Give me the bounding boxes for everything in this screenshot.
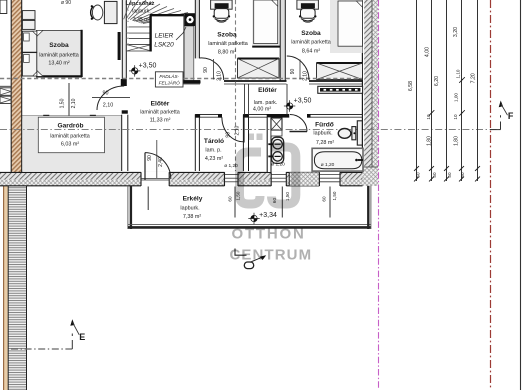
svg-text:2,40: 2,40 <box>158 157 164 167</box>
svg-text:2,10: 2,10 <box>303 71 309 81</box>
svg-text:8,80 m²: 8,80 m² <box>218 50 236 56</box>
svg-text:1,50: 1,50 <box>60 98 66 108</box>
svg-text:lam. park.: lam. park. <box>254 100 278 106</box>
svg-text:7,38 m²: 7,38 m² <box>183 214 201 220</box>
svg-text:13,40 m²: 13,40 m² <box>48 60 69 66</box>
svg-text:FELJÁRÓ: FELJÁRÓ <box>159 80 180 86</box>
svg-text:50: 50 <box>432 172 437 178</box>
svg-text:90: 90 <box>103 90 109 96</box>
svg-text:1,00: 1,00 <box>453 93 458 102</box>
svg-text:3,20: 3,20 <box>453 27 459 37</box>
svg-text:LSK20: LSK20 <box>154 42 174 49</box>
svg-text:Előtér: Előtér <box>258 87 277 94</box>
svg-text:Előtér: Előtér <box>151 100 170 107</box>
svg-text:Gardrób: Gardrób <box>57 122 83 129</box>
svg-text:7,20: 7,20 <box>470 73 476 83</box>
svg-text:ø 1,20: ø 1,20 <box>321 162 335 168</box>
svg-text:2,10: 2,10 <box>217 71 223 81</box>
svg-text:+3,34: +3,34 <box>259 212 277 219</box>
svg-text:4,23 m²: 4,23 m² <box>205 156 223 162</box>
svg-text:8,64 m²: 8,64 m² <box>302 48 320 54</box>
svg-text:90: 90 <box>203 67 209 73</box>
svg-text:2,10: 2,10 <box>234 126 240 136</box>
svg-text:Szoba: Szoba <box>49 42 69 49</box>
svg-text:lam. p.: lam. p. <box>205 148 221 154</box>
svg-text:E: E <box>79 332 85 342</box>
svg-text:OTTHON: OTTHON <box>232 226 306 243</box>
svg-text:laminált parketta: laminált parketta <box>140 110 180 116</box>
svg-text:laminált parketta: laminált parketta <box>50 134 90 140</box>
svg-text:2,10: 2,10 <box>71 98 77 108</box>
svg-text:lapburk.: lapburk. <box>132 9 150 15</box>
svg-text:11,33 m²: 11,33 m² <box>150 118 171 124</box>
svg-text:PADLÁS-: PADLÁS- <box>159 73 179 79</box>
svg-text:4,00: 4,00 <box>424 47 430 57</box>
svg-text:Lépcsőház: Lépcsőház <box>126 1 155 7</box>
svg-text:Fürdő: Fürdő <box>315 121 334 128</box>
svg-text:Szoba: Szoba <box>217 31 237 38</box>
svg-text:1,80: 1,80 <box>426 136 432 146</box>
svg-text:1,80: 1,80 <box>453 136 459 146</box>
svg-text:50: 50 <box>460 172 465 178</box>
svg-text:60: 60 <box>228 196 233 202</box>
svg-text:4,00 m²: 4,00 m² <box>253 106 271 112</box>
svg-text:50: 50 <box>415 172 420 178</box>
svg-text:Tároló: Tároló <box>204 138 224 145</box>
svg-text:90: 90 <box>290 69 296 75</box>
svg-text:90: 90 <box>225 132 231 138</box>
svg-text:6,58: 6,58 <box>408 81 414 91</box>
svg-text:F: F <box>508 111 514 121</box>
svg-text:6,20: 6,20 <box>434 76 440 86</box>
svg-text:+3,50: +3,50 <box>139 62 157 69</box>
svg-text:6,03 m²: 6,03 m² <box>61 142 79 148</box>
svg-text:10: 10 <box>426 114 431 120</box>
svg-text:lapburk.: lapburk. <box>180 206 199 212</box>
svg-text:Szoba: Szoba <box>301 30 321 37</box>
svg-text:+3,50: +3,50 <box>294 98 312 105</box>
svg-text:ø 90: ø 90 <box>61 0 71 6</box>
svg-text:7,28 m²: 7,28 m² <box>316 140 334 146</box>
svg-text:ø 1,20: ø 1,20 <box>271 161 285 167</box>
svg-text:CENTRUM: CENTRUM <box>230 247 313 264</box>
svg-text:3,35 m²: 3,35 m² <box>133 17 151 23</box>
svg-text:lapburk.: lapburk. <box>313 131 332 137</box>
svg-text:laminált parketta: laminált parketta <box>39 53 79 59</box>
svg-text:1,10: 1,10 <box>456 69 461 78</box>
svg-text:90: 90 <box>147 155 153 161</box>
svg-text:60: 60 <box>322 196 327 202</box>
svg-text:laminált parketta: laminált parketta <box>291 40 331 46</box>
svg-text:laminált parketta: laminált parketta <box>208 41 248 47</box>
svg-text:2,10: 2,10 <box>103 103 114 109</box>
svg-text:Erkély: Erkély <box>183 195 203 202</box>
svg-text:LEIER: LEIER <box>155 32 174 39</box>
svg-text:10: 10 <box>453 114 458 120</box>
svg-text:1,50: 1,50 <box>332 191 337 200</box>
svg-text:50: 50 <box>447 172 452 178</box>
